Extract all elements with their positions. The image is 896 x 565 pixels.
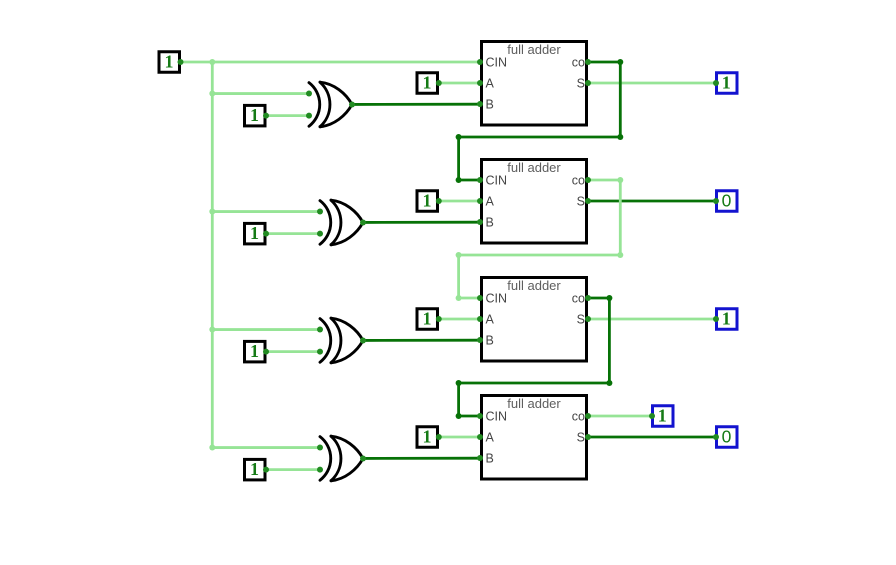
U3 pin label S — [577, 313, 585, 327]
node corner co2 — [617, 252, 623, 258]
svg-text:B: B — [486, 452, 494, 466]
U1 pin label CIN — [486, 56, 508, 70]
wire U3 co to U4 CIN — [459, 298, 610, 416]
node pin U3 B — [477, 337, 483, 343]
input A3 box — [417, 427, 438, 448]
svg-text:0: 0 — [722, 191, 732, 211]
node pin U2 CIN — [477, 177, 483, 183]
wire input B0 to X1 input 2 — [267, 114, 310, 117]
input B0 box — [245, 105, 266, 126]
U3 pin label B — [486, 334, 494, 348]
wire branch to X3 input 1 — [212, 328, 320, 331]
node pin U1 CIN — [477, 59, 483, 65]
svg-text:B: B — [486, 334, 494, 348]
full adder U4 box — [482, 396, 587, 480]
xor gate X2 — [320, 200, 363, 245]
full adder U1 box — [482, 42, 587, 126]
svg-text:S: S — [577, 313, 585, 327]
svg-text:S: S — [577, 431, 585, 445]
input A2 value label 1 — [423, 309, 432, 329]
node pin U4 B — [477, 455, 483, 461]
svg-text:A: A — [486, 313, 495, 327]
wire U2 S to output S2 — [588, 200, 715, 203]
output S1 box — [717, 191, 738, 212]
node corner co2 — [456, 295, 462, 301]
U2 pin label B — [486, 216, 494, 230]
svg-text:co: co — [572, 291, 585, 305]
svg-text:1: 1 — [250, 341, 259, 361]
node pin input A2 — [436, 316, 442, 322]
node junction bus top — [209, 59, 215, 65]
wire U4 co to output C4 — [588, 415, 651, 418]
node corner co3 — [456, 380, 462, 386]
node corner co3 — [606, 295, 612, 301]
svg-text:CIN: CIN — [486, 410, 508, 424]
wire U4 S to output S4 — [588, 436, 715, 439]
wire U3 S to output S3 — [588, 318, 715, 321]
input A0 value label 1 — [423, 73, 432, 93]
wire input B2 to X3 input 2 — [267, 350, 321, 353]
wire X1 out to U1 B — [352, 103, 480, 106]
wire input A3 to U4 A — [439, 436, 480, 439]
node pin X4 in2 — [317, 467, 323, 473]
input A3 value label 1 — [423, 427, 432, 447]
svg-text:1: 1 — [658, 406, 667, 426]
svg-text:full adder: full adder — [507, 278, 561, 293]
node pin input A1 — [436, 198, 442, 204]
input B3 value label 1 — [250, 459, 259, 479]
output S0 value label 1 — [722, 73, 731, 93]
svg-text:S: S — [577, 77, 585, 91]
wire vertical bus from node at (212,62) — [211, 62, 214, 448]
full adder U2 box — [482, 160, 587, 244]
output C4 box — [653, 406, 674, 427]
node pin U2 A — [477, 198, 483, 204]
U4 pin label B — [486, 452, 494, 466]
node pin output S1 — [713, 198, 719, 204]
node pin U3 A — [477, 316, 483, 322]
node pin X2 out — [360, 219, 366, 225]
input SUB value label 1 — [165, 52, 174, 72]
node pin input B3 — [263, 467, 269, 473]
input A1 value label 1 — [423, 191, 432, 211]
node pin input B2 — [263, 349, 269, 355]
node pin U3 S — [585, 316, 591, 322]
node junction bus branch 2 — [209, 209, 215, 215]
U4 pin label co — [572, 409, 585, 423]
svg-text:co: co — [572, 409, 585, 423]
node pin X2 in1 — [317, 209, 323, 215]
svg-text:1: 1 — [250, 223, 259, 243]
node pin U4 A — [477, 434, 483, 440]
node junction bus branch 1 — [209, 91, 215, 97]
output S3 box — [717, 427, 738, 448]
node corner co2 — [617, 177, 623, 183]
node pin input B0 — [263, 113, 269, 119]
wire branch to X1 input 1 — [212, 92, 309, 95]
output C4 value label 1 — [658, 406, 667, 426]
wire X3 out to U3 B — [363, 339, 480, 342]
input SUB box — [159, 52, 180, 73]
U4 pin label A — [486, 431, 495, 445]
wire U2 co to U3 CIN — [459, 180, 621, 298]
U1 pin label S — [577, 77, 585, 91]
node pin U1 co — [585, 59, 591, 65]
node pin X3 out — [360, 337, 366, 343]
U3 pin label A — [486, 313, 495, 327]
U4 pin label CIN — [486, 410, 508, 424]
input B2 value label 1 — [250, 341, 259, 361]
wire X2 out to U2 B — [363, 221, 480, 224]
node junction bus branch 3 — [209, 327, 215, 333]
node pin input A0 — [436, 80, 442, 86]
node pin output S2 — [713, 316, 719, 322]
U2 pin label CIN — [486, 174, 508, 188]
U2 pin label co — [572, 173, 585, 187]
full adder U3 box — [482, 278, 587, 362]
node pin X2 in2 — [317, 231, 323, 237]
wire U1 S to output S1 — [588, 82, 715, 85]
node pin input S — [178, 59, 184, 65]
input A0 box — [417, 73, 438, 94]
wire input S to U1 CIN — [181, 61, 480, 64]
svg-text:full adder: full adder — [507, 42, 561, 57]
input A2 box — [417, 309, 438, 330]
node corner co1 — [456, 134, 462, 140]
node pin X3 in1 — [317, 327, 323, 333]
node pin X4 in1 — [317, 445, 323, 451]
svg-text:1: 1 — [250, 105, 259, 125]
node pin U4 S — [585, 434, 591, 440]
svg-text:1: 1 — [423, 427, 432, 447]
svg-text:B: B — [486, 216, 494, 230]
wire branch to X2 input 1 — [212, 210, 320, 213]
wire branch to X4 input 1 — [212, 446, 320, 449]
node pin U2 co — [585, 177, 591, 183]
svg-text:1: 1 — [423, 73, 432, 93]
node pin U2 S — [585, 198, 591, 204]
node pin input A3 — [436, 434, 442, 440]
wire input A0 to U1 A — [439, 82, 480, 85]
input B0 value label 1 — [250, 105, 259, 125]
output S2 box — [717, 309, 738, 330]
svg-text:A: A — [486, 77, 495, 91]
node pin output C4 — [649, 413, 655, 419]
U2 pin label A — [486, 195, 495, 209]
node pin U1 B — [477, 101, 483, 107]
U4 pin label S — [577, 431, 585, 445]
node corner co3 — [456, 413, 462, 419]
U1 pin label B — [486, 98, 494, 112]
svg-text:CIN: CIN — [486, 174, 508, 188]
output S2 value label 1 — [722, 309, 731, 329]
svg-text:A: A — [486, 195, 495, 209]
node pin input B1 — [263, 231, 269, 237]
node pin X1 in1 — [306, 91, 312, 97]
node pin X1 in2 — [306, 113, 312, 119]
svg-text:0: 0 — [722, 427, 732, 447]
wire X4 out to U4 B — [363, 457, 480, 460]
svg-text:co: co — [572, 173, 585, 187]
svg-text:S: S — [577, 195, 585, 209]
full adder U4 label — [507, 396, 561, 411]
node pin output S0 — [713, 80, 719, 86]
node corner co3 — [606, 380, 612, 386]
output S1 value label 0 — [722, 191, 732, 211]
svg-text:1: 1 — [423, 191, 432, 211]
node pin U1 S — [585, 80, 591, 86]
wire input B3 to X4 input 2 — [267, 468, 321, 471]
xor gate X4 — [320, 436, 363, 481]
node pin X3 in2 — [317, 349, 323, 355]
node pin U3 co — [585, 295, 591, 301]
node corner co1 — [456, 177, 462, 183]
node corner co1 — [617, 59, 623, 65]
U1 pin label co — [572, 55, 585, 69]
node corner co2 — [456, 252, 462, 258]
svg-text:B: B — [486, 98, 494, 112]
node pin X1 out — [349, 101, 355, 107]
U3 pin label co — [572, 291, 585, 305]
svg-text:1: 1 — [423, 309, 432, 329]
svg-text:1: 1 — [165, 52, 174, 72]
output S3 value label 0 — [722, 427, 732, 447]
svg-text:co: co — [572, 55, 585, 69]
svg-text:1: 1 — [722, 309, 731, 329]
node pin U2 B — [477, 219, 483, 225]
U3 pin label CIN — [486, 292, 508, 306]
U1 pin label A — [486, 77, 495, 91]
node pin output S3 — [713, 434, 719, 440]
full adder U2 label — [507, 160, 561, 175]
svg-text:CIN: CIN — [486, 56, 508, 70]
xor gate X3 — [320, 318, 363, 363]
node pin U1 A — [477, 80, 483, 86]
node pin U3 CIN — [477, 295, 483, 301]
svg-text:CIN: CIN — [486, 292, 508, 306]
node corner co1 — [617, 134, 623, 140]
U2 pin label S — [577, 195, 585, 209]
full adder U1 label — [507, 42, 561, 57]
wire input B1 to X2 input 2 — [267, 232, 321, 235]
full adder U3 label — [507, 278, 561, 293]
output S0 box — [717, 73, 738, 94]
node pin U4 CIN — [477, 413, 483, 419]
input B1 value label 1 — [250, 223, 259, 243]
node junction bus branch 4 — [209, 445, 215, 451]
input A1 box — [417, 191, 438, 212]
node pin U4 co — [585, 413, 591, 419]
input B2 box — [245, 341, 266, 362]
wire U1 co to U2 CIN — [459, 62, 621, 180]
xor gate X1 — [309, 82, 352, 127]
svg-text:A: A — [486, 431, 495, 445]
input B1 box — [245, 223, 266, 244]
svg-text:full adder: full adder — [507, 396, 561, 411]
svg-text:1: 1 — [722, 73, 731, 93]
input B3 box — [245, 459, 266, 480]
wire input A2 to U3 A — [439, 318, 480, 321]
svg-text:full adder: full adder — [507, 160, 561, 175]
wire input A1 to U2 A — [439, 200, 480, 203]
node pin X4 out — [360, 455, 366, 461]
svg-text:1: 1 — [250, 459, 259, 479]
